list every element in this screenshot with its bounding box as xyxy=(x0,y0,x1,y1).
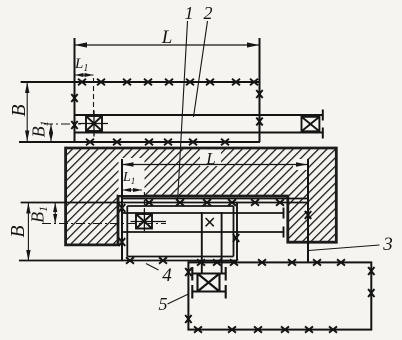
welding head carriage (lower left) xyxy=(131,210,167,232)
weld mark xyxy=(197,259,205,265)
seam axis / B1 extension (top) xyxy=(44,123,81,125)
welding head carriage (top right) xyxy=(302,117,320,132)
svg-text:B: B xyxy=(7,225,29,237)
plate 2 right end bar bottom xyxy=(322,128,324,139)
weld mark xyxy=(313,259,321,265)
weld mark xyxy=(281,326,289,332)
dimension B (top) xyxy=(25,82,29,142)
weld mark xyxy=(230,259,238,265)
plate 2 top edge xyxy=(75,114,323,116)
weld mark xyxy=(145,199,153,205)
dimension L1 (middle) xyxy=(122,188,142,192)
weld mark xyxy=(119,204,125,212)
leader line of 2 xyxy=(194,21,208,117)
weld mark xyxy=(185,268,191,276)
halo for right arrow of L (middle) xyxy=(293,159,308,170)
bottom edge weld seam xyxy=(19,141,260,143)
halo for label L (middle) xyxy=(200,150,221,167)
small welding point mark xyxy=(206,218,214,226)
svg-text:5: 5 xyxy=(159,294,168,314)
weld mark xyxy=(145,139,153,145)
strip end bar bottom xyxy=(283,227,285,238)
weld mark xyxy=(194,326,202,332)
weld mark on right edge xyxy=(256,90,262,98)
weld mark xyxy=(250,79,258,85)
weld mark xyxy=(251,199,259,205)
weld mark xyxy=(368,289,374,297)
lower plate right edge xyxy=(307,159,309,262)
dashed extension to seam axis xyxy=(93,78,95,116)
weld mark xyxy=(288,259,296,265)
weld mark xyxy=(185,315,191,323)
dashed extension to lower seam axis xyxy=(143,192,145,211)
plate 1 right edge / extension line xyxy=(259,38,261,142)
weld mark xyxy=(119,238,125,246)
svg-text:B: B xyxy=(8,104,30,116)
weld mark xyxy=(305,211,311,219)
weld mark xyxy=(213,259,221,265)
weld mark xyxy=(159,257,167,263)
plate 1 left edge / extension line xyxy=(74,38,76,142)
weld mark xyxy=(329,326,337,332)
plate 1 top edge weld seam xyxy=(21,81,260,83)
svg-text:L: L xyxy=(205,149,215,168)
upper overlapped sheet outline xyxy=(127,206,233,257)
weld mark on left edge xyxy=(71,94,77,102)
weld mark xyxy=(186,79,194,85)
weld mark xyxy=(144,79,152,85)
weld mark xyxy=(254,326,262,332)
plate 2 right end bar top xyxy=(322,110,324,121)
svg-text:L: L xyxy=(161,27,173,48)
weld mark xyxy=(221,139,229,145)
guide rail right xyxy=(221,212,223,273)
dimension L (middle, over hatch) xyxy=(122,162,308,167)
leader line of 4 xyxy=(146,264,159,271)
guide rail left xyxy=(201,212,203,273)
weld mark on left edge xyxy=(71,121,77,129)
welding head carriage (top left) xyxy=(79,111,109,137)
weld mark xyxy=(165,79,173,85)
svg-text:1: 1 xyxy=(185,3,194,23)
weld mark xyxy=(228,199,236,205)
lower plate top edge xyxy=(122,198,308,200)
leader line of 3 xyxy=(309,245,380,251)
weld mark xyxy=(176,199,184,205)
weld mark xyxy=(206,79,214,85)
weld mark xyxy=(203,199,211,205)
seam axis (dash-dot, lower) xyxy=(42,223,166,225)
lower plate left edge xyxy=(121,159,123,261)
weld mark xyxy=(276,199,284,205)
strip end bar top xyxy=(283,208,285,219)
dimension B1 (top) xyxy=(49,125,53,142)
welding head carriage (bottom) xyxy=(192,267,226,299)
weld mark xyxy=(113,139,121,145)
weld mark on right edge xyxy=(256,118,262,126)
svg-text:2: 2 xyxy=(204,3,213,23)
svg-text:3: 3 xyxy=(382,234,393,255)
weld mark xyxy=(337,259,345,265)
plate 2 inner edge xyxy=(75,132,323,134)
loop outline xyxy=(188,262,371,329)
weld mark xyxy=(123,79,131,85)
leader line of 5 xyxy=(168,294,189,304)
weld mark xyxy=(232,79,240,85)
hatched block xyxy=(66,148,337,245)
weld mark xyxy=(78,79,86,85)
weld mark xyxy=(189,139,197,145)
svg-text:4: 4 xyxy=(162,265,172,286)
weld mark xyxy=(164,139,172,145)
lower strip bottom edge xyxy=(122,231,284,233)
dimension B (lower) xyxy=(26,203,30,262)
leader line of 1 xyxy=(178,21,188,202)
weld mark xyxy=(97,79,105,85)
weld mark xyxy=(368,267,374,275)
lower bottom weld edge xyxy=(19,260,237,262)
weld mark xyxy=(305,326,313,332)
dimension B1 (lower) xyxy=(53,203,57,224)
dimension L (top) xyxy=(75,42,260,47)
overlapped sheet right weld edge xyxy=(236,203,238,261)
weld mark xyxy=(233,234,239,242)
halo for L1 label and arrows (middle) xyxy=(119,158,145,195)
weld mark xyxy=(228,326,236,332)
dimension L1 (top) xyxy=(75,73,94,77)
weld mark xyxy=(126,257,134,263)
lower top weld seam xyxy=(21,202,308,204)
lower strip top edge xyxy=(122,212,284,214)
weld mark xyxy=(258,259,266,265)
weld mark xyxy=(86,139,94,145)
